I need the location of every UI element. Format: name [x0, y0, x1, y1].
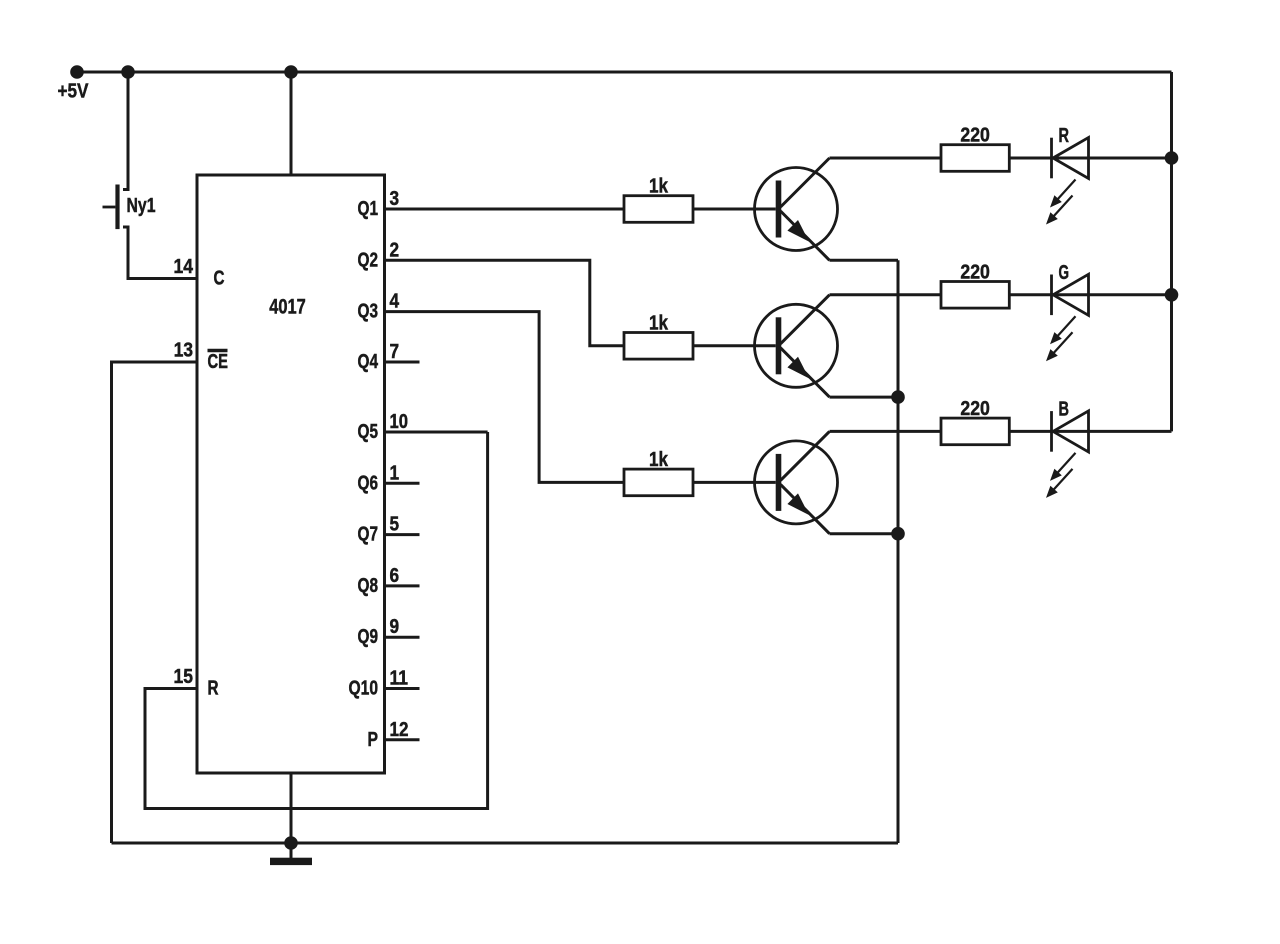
resistor R4 220 body: [941, 145, 1009, 172]
svg-text:Q4: Q4: [358, 351, 379, 373]
ground symbol: [270, 858, 312, 865]
svg-text:C: C: [214, 268, 225, 290]
wire collector Q2 to 220 resistor: [830, 293, 942, 296]
wire collector Q3 to 220 resistor: [830, 430, 942, 433]
node junction Ny1 branch: [121, 65, 135, 79]
wire emitter Q1 to emitter bus: [830, 259, 899, 262]
svg-text:14: 14: [174, 256, 194, 278]
pin stub Q10: [385, 687, 420, 690]
wire emitter Q2 to emitter bus: [830, 396, 899, 399]
svg-text:11: 11: [390, 668, 409, 690]
svg-text:+5V: +5V: [58, 81, 90, 103]
wire Q3 pin 4 to R3 1k: [385, 312, 625, 483]
svg-text:13: 13: [174, 340, 193, 362]
wire ground rail: [112, 842, 899, 845]
svg-text:5: 5: [390, 514, 400, 536]
wire 220 through LED G to +5V bus: [1009, 293, 1171, 296]
LED D3 triangle: [1053, 411, 1089, 452]
svg-text:1k: 1k: [649, 449, 669, 471]
LED D1 cathode bar: [1050, 138, 1053, 179]
resistor R2 1k body: [624, 333, 693, 360]
transistor Q1 collector line: [781, 158, 830, 207]
LED D1 light arrow: [1057, 180, 1076, 201]
LED D3 light arrow: [1053, 469, 1073, 491]
svg-text:Q1: Q1: [358, 198, 379, 220]
wire CE pin 13 to ground rail: [112, 362, 198, 843]
LED D2 cathode bar: [1050, 275, 1053, 316]
wire emitter bus: [897, 260, 900, 843]
node junction LED R bus: [1165, 151, 1179, 165]
pin stub Q6: [385, 482, 420, 485]
LED D1 light arrow: [1053, 196, 1073, 218]
svg-text:220: 220: [960, 261, 990, 283]
pin stub Q4: [385, 361, 420, 364]
node junction emitter Q3 bus: [891, 527, 905, 541]
svg-text:Q7: Q7: [358, 524, 379, 546]
transistor Q1 emitter arrow: [787, 220, 809, 242]
pin stub Q9: [385, 636, 420, 639]
node junction LED G bus: [1165, 288, 1179, 302]
pin CE overline: [208, 349, 228, 353]
svg-text:R: R: [208, 678, 219, 700]
svg-text:Ny1: Ny1: [127, 195, 156, 217]
IC U1 4017 body: [197, 175, 385, 773]
wire 1k to transistor Q1 base: [693, 208, 776, 211]
wire switch bottom contact to pin 14 C: [123, 227, 197, 279]
svg-text:4: 4: [390, 291, 400, 313]
svg-text:Q6: Q6: [358, 472, 379, 494]
transistor Q2 emitter line: [781, 348, 830, 397]
node junction ground: [284, 836, 298, 850]
wire R pin 15 reset loop: [145, 432, 488, 809]
wire 220 through LED R to +5V bus: [1009, 157, 1171, 160]
transistor Q3 base bar: [776, 454, 782, 511]
svg-text:1k: 1k: [649, 312, 669, 334]
svg-text:1: 1: [390, 462, 400, 484]
svg-text:P: P: [368, 729, 379, 751]
transistor Q1 emitter line: [781, 211, 830, 260]
wire +5V to switch Ny1 top contact: [123, 72, 128, 190]
pin stub Q7: [385, 533, 420, 536]
svg-text:220: 220: [960, 125, 990, 147]
wire 220 through LED B to +5V bus: [1009, 430, 1171, 433]
svg-text:12: 12: [390, 719, 409, 741]
wire IC VDD pin to +5V rail: [290, 72, 293, 175]
node +5V terminal: [70, 65, 84, 79]
svg-text:Q2: Q2: [358, 249, 379, 271]
wire Q5 pin 10: [385, 431, 488, 434]
svg-text:1k: 1k: [649, 176, 669, 198]
svg-text:9: 9: [390, 616, 400, 638]
wire collector Q1 to 220 resistor: [830, 157, 942, 160]
svg-text:15: 15: [174, 666, 194, 688]
svg-text:Q9: Q9: [358, 626, 379, 648]
svg-text:Q5: Q5: [358, 421, 379, 443]
svg-text:7: 7: [390, 341, 400, 363]
wire right +5V bus: [1170, 72, 1173, 431]
pushbutton Ny1 actuator bar: [115, 185, 119, 230]
wire 1k to transistor Q2 base: [693, 344, 776, 347]
svg-text:3: 3: [390, 188, 400, 210]
transistor Q2 emitter arrow: [787, 357, 809, 379]
svg-text:220: 220: [960, 398, 990, 420]
pin stub P: [385, 738, 420, 741]
transistor Q3 circle: [755, 441, 838, 524]
node junction IC VDD branch: [284, 65, 298, 79]
wire Q2 pin 2 to R2 1k: [385, 260, 625, 346]
LED D3 cathode bar: [1050, 411, 1053, 452]
resistor R5 220 body: [941, 282, 1009, 309]
LED D2 triangle: [1053, 274, 1089, 315]
resistor R6 220 body: [941, 418, 1009, 445]
transistor Q3 collector line: [781, 431, 830, 480]
LED D1 triangle: [1053, 138, 1089, 179]
svg-text:4017: 4017: [269, 296, 306, 319]
LED D2 light arrow: [1053, 332, 1073, 354]
LED D3 light arrow: [1057, 453, 1076, 474]
svg-text:G: G: [1059, 262, 1070, 284]
node junction emitter Q2 bus: [891, 390, 905, 404]
pushbutton Ny1 stem: [103, 206, 116, 209]
svg-text:B: B: [1059, 398, 1070, 420]
transistor Q2 collector line: [781, 295, 830, 344]
pin stub Q8: [385, 584, 420, 587]
svg-text:10: 10: [390, 411, 409, 433]
transistor Q3 emitter line: [781, 484, 830, 533]
wire +5V top rail: [77, 71, 1172, 74]
svg-text:R: R: [1059, 125, 1070, 147]
transistor Q3 emitter arrow: [787, 493, 809, 515]
transistor Q1 base bar: [776, 181, 782, 238]
svg-text:6: 6: [390, 565, 400, 587]
transistor Q2 circle: [755, 304, 838, 387]
svg-text:CE: CE: [208, 351, 229, 373]
transistor Q1 circle: [755, 168, 838, 251]
wire 1k to transistor Q3 base: [693, 481, 776, 484]
resistor R1 1k body: [624, 196, 693, 223]
wire emitter Q3 to emitter bus: [830, 532, 899, 535]
svg-text:Q3: Q3: [358, 301, 379, 323]
LED D2 light arrow: [1057, 316, 1076, 337]
transistor Q2 base bar: [776, 317, 782, 374]
resistor R3 1k body: [624, 469, 693, 496]
svg-text:2: 2: [390, 239, 400, 261]
wire Q1 pin 3 to R1 1k: [385, 208, 625, 211]
wire IC VSS pin to ground: [290, 773, 293, 858]
svg-text:Q10: Q10: [349, 678, 379, 700]
svg-text:Q8: Q8: [358, 575, 379, 597]
